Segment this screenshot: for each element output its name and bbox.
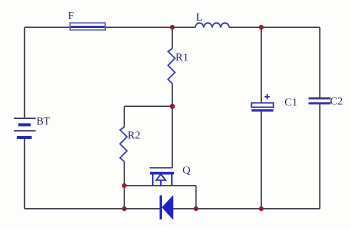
node (bottom rail / drain drop) xyxy=(194,206,199,211)
svg-text:R2: R2 xyxy=(128,130,141,142)
fuse F xyxy=(68,11,105,30)
resistor R1 xyxy=(168,49,188,84)
svg-text:L: L xyxy=(196,12,203,24)
svg-text:R1: R1 xyxy=(176,52,189,64)
wire C1 branch top lead xyxy=(260,27,262,103)
node (top rail / C1) xyxy=(259,25,264,30)
wire battery top lead xyxy=(24,27,26,117)
svg-text:F: F xyxy=(68,11,74,22)
node A (top rail / R1) xyxy=(170,25,175,30)
wire C2 branch top lead xyxy=(319,27,321,97)
wire node B to R2 branch (horizontal) xyxy=(124,105,172,107)
wire node C drop to bottom rail xyxy=(123,186,125,209)
wire source line (node C to drain corner) xyxy=(124,185,196,187)
wire R1 bottom lead to node B xyxy=(171,84,173,107)
wire drain drop (corner down to bottom rail) xyxy=(195,186,197,209)
wire gate lead (node B down to gate) xyxy=(171,106,173,168)
inductor L xyxy=(195,12,229,28)
wire R2 bottom lead to node C xyxy=(123,162,125,186)
wire R1 top lead xyxy=(171,27,173,48)
diode D (cathode bar) xyxy=(160,195,173,219)
node B (R1 / R2 / gate) xyxy=(170,104,175,109)
wire C2 branch bottom lead xyxy=(319,104,321,208)
wire battery bottom lead xyxy=(24,139,26,209)
wire C1 branch bottom lead xyxy=(260,112,262,209)
svg-text:Q: Q xyxy=(183,165,191,177)
battery BT xyxy=(14,117,51,138)
wire bottom rail right (diode to C2 corner) xyxy=(173,208,320,210)
transistor Q (MOSFET) xyxy=(150,165,191,187)
capacitor C1 xyxy=(252,94,298,112)
node (bottom rail / C1) xyxy=(259,206,264,211)
svg-text:C2: C2 xyxy=(330,96,343,108)
wire top rail left (battery to fuse) xyxy=(25,26,71,28)
capacitor C2 xyxy=(309,96,343,108)
wire bottom rail left (battery to diode) xyxy=(25,208,160,210)
node (bottom rail / R2 drop) xyxy=(122,206,127,211)
node C (R2 / source line) xyxy=(122,183,127,188)
wire R2 top lead xyxy=(123,106,125,127)
wire top rail (through fuse to inductor) xyxy=(70,26,195,28)
svg-text:BT: BT xyxy=(37,117,51,128)
svg-text:C1: C1 xyxy=(285,97,298,109)
resistor R2 xyxy=(120,127,140,162)
wire top rail right (inductor to C2 corner) xyxy=(229,26,320,28)
